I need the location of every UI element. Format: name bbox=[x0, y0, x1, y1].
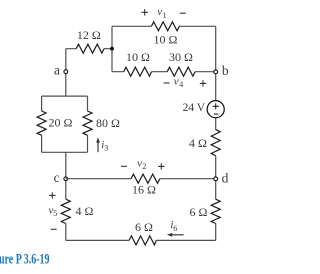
svg-text:20 Ω: 20 Ω bbox=[49, 116, 73, 130]
wire top: y=26.3 from x=112 to right rail bbox=[112, 25, 216, 27]
label - inside source bbox=[214, 113, 218, 115]
svg-text:6: 6 bbox=[173, 224, 177, 233]
label + (v5 plus) bbox=[49, 192, 55, 198]
label + inside source bbox=[213, 103, 219, 109]
wire right rail top: node b area bbox=[215, 26, 217, 100]
wire right rail: 4ohm to node d to 6ohm bbox=[215, 156, 217, 200]
svg-text:4 Ω: 4 Ω bbox=[189, 136, 207, 150]
label + (v2 plus) bbox=[158, 163, 164, 169]
svg-text:v: v bbox=[174, 75, 179, 87]
label - (v5 minus) bbox=[51, 228, 57, 230]
resistor 10ohm top (v1) bbox=[151, 22, 179, 31]
wire right rail bottom: 6ohm to bottom wire bbox=[215, 224, 217, 241]
resistor 16ohm (v2) bbox=[131, 174, 160, 183]
svg-text:4 Ω: 4 Ω bbox=[76, 204, 94, 218]
wire c-d row: y=179 node c to node d bbox=[66, 178, 216, 180]
svg-text:ure P 3.6-19: ure P 3.6-19 bbox=[0, 252, 50, 268]
resistor 10ohm row2 bbox=[124, 67, 152, 76]
current arrow i6 (leftward) bbox=[171, 234, 184, 236]
svg-text:3: 3 bbox=[104, 143, 108, 152]
wire bottom: y=240 bbox=[66, 239, 216, 241]
label + (v4 plus) bbox=[200, 80, 206, 86]
wire top loop: left vertical x=112 from top wire to second row bbox=[111, 26, 113, 71]
label - (v4 minus) bbox=[164, 82, 170, 84]
node c (open circle) bbox=[64, 177, 68, 181]
svg-text:10 Ω: 10 Ω bbox=[154, 32, 178, 46]
svg-text:b: b bbox=[222, 63, 229, 78]
wire 12ohm branch: y=48.7 from left rail to junction bbox=[66, 48, 112, 50]
parallel box top wire bbox=[42, 95, 88, 97]
svg-text:d: d bbox=[222, 171, 229, 186]
label - (v2 minus) bbox=[121, 165, 127, 167]
wire left rail lower: 4ohm to bottom wire bbox=[65, 224, 67, 241]
wire left rail upper: x=65.8 from 12ohm corner down to box top bbox=[65, 49, 67, 96]
parallel box left branch wire bbox=[41, 96, 43, 152]
node d (open circle) bbox=[214, 177, 218, 181]
resistor 4ohm left (v5) bbox=[61, 199, 70, 223]
junction dot at 12ohm / mid vertical bbox=[110, 47, 114, 51]
svg-text:80 Ω: 80 Ω bbox=[96, 116, 120, 130]
parallel box right branch wire bbox=[87, 96, 89, 152]
resistor 6ohm bottom (i6) bbox=[129, 236, 156, 245]
wire right rail: source to 4ohm bbox=[215, 118, 217, 130]
svg-text:30 Ω: 30 Ω bbox=[169, 50, 193, 64]
wire left rail mid: box bottom to node c then to 4ohm v5 bbox=[65, 152, 67, 199]
svg-text:5: 5 bbox=[53, 209, 57, 218]
current arrow i3 (upward) bbox=[97, 141, 99, 152]
parallel box bottom wire bbox=[42, 151, 88, 153]
svg-text:16 Ω: 16 Ω bbox=[132, 183, 156, 197]
node b (open circle) bbox=[214, 70, 218, 74]
resistor 20ohm (left branch of box) bbox=[37, 111, 46, 135]
svg-text:10 Ω: 10 Ω bbox=[126, 50, 150, 64]
resistor 4ohm right bbox=[211, 130, 220, 156]
svg-text:6 Ω: 6 Ω bbox=[135, 220, 153, 234]
svg-text:v: v bbox=[157, 6, 162, 18]
svg-text:12 Ω: 12 Ω bbox=[77, 28, 101, 42]
svg-text:6 Ω: 6 Ω bbox=[190, 205, 208, 219]
label - (v1 minus) bbox=[180, 12, 186, 14]
voltage source 24V (circle with + -) bbox=[207, 101, 224, 118]
node a (open circle on left rail) bbox=[64, 70, 68, 74]
resistor 6ohm right bbox=[211, 199, 220, 223]
resistor 80ohm (right branch of box) bbox=[83, 111, 92, 135]
svg-text:4: 4 bbox=[179, 80, 183, 89]
resistor 30ohm row2 (v4) bbox=[167, 67, 195, 76]
svg-text:2: 2 bbox=[142, 162, 146, 171]
svg-text:24 V: 24 V bbox=[183, 102, 206, 114]
svg-text:a: a bbox=[54, 62, 60, 77]
wire second row: y=71.9 from x=112 to node b bbox=[112, 71, 216, 73]
svg-text:c: c bbox=[54, 170, 60, 185]
resistor 12ohm bbox=[76, 44, 104, 53]
svg-text:1: 1 bbox=[163, 11, 167, 20]
label + (v1 plus) bbox=[142, 9, 148, 15]
